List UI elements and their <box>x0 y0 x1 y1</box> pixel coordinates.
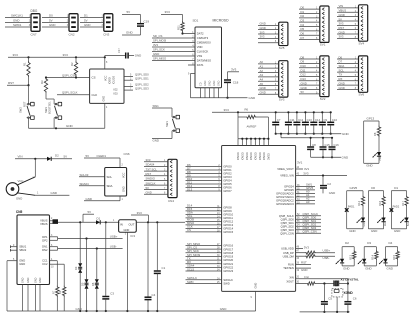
svg-text:IO3: IO3 <box>114 92 119 95</box>
svg-text:GND: GND <box>260 91 266 95</box>
svg-text:USB_DP: USB_DP <box>283 251 294 255</box>
svg-text:SWDIO: SWDIO <box>146 177 156 181</box>
svg-text:GND: GND <box>371 229 377 233</box>
ground rail of VREG caps <box>297 156 349 165</box>
svg-text:GPIO12: GPIO12 <box>223 220 233 224</box>
pushbutton SW2 RST <box>19 85 35 128</box>
wire QSPI_CSN to flash CS <box>45 73 90 78</box>
connector CN7 header <box>31 9 41 36</box>
LED circuit TX D2 <box>336 241 356 271</box>
svg-text:3V3: 3V3 <box>146 158 151 162</box>
svg-text:GND: GND <box>349 229 355 233</box>
svg-text:GP25: GP25 <box>350 186 358 190</box>
svg-text:GND: GND <box>342 156 350 160</box>
svg-text:SWD1: SWD1 <box>13 23 22 27</box>
svg-text:3V3: 3V3 <box>303 172 309 176</box>
svg-text:C19: C19 <box>144 20 150 24</box>
svg-text:CS: CS <box>92 76 96 80</box>
svg-text:R17: R17 <box>401 200 405 205</box>
svg-text:5V: 5V <box>49 19 53 23</box>
svg-text:QSPI_CSN: QSPI_CSN <box>280 231 294 235</box>
svg-text:RST: RST <box>146 172 152 176</box>
wire RUN RST <box>296 261 311 265</box>
svg-text:GND: GND <box>13 19 19 23</box>
svg-text:GND: GND <box>339 86 345 90</box>
LED circuit D7 GP13 <box>364 116 383 167</box>
svg-text:GND: GND <box>84 23 90 27</box>
svg-text:GND: GND <box>16 197 22 201</box>
svg-text:IO2: IO2 <box>114 88 119 91</box>
wire QSPI_SCLK to flash CLK <box>57 91 90 95</box>
svg-text:BOOTSEL: BOOTSEL <box>48 101 52 114</box>
connector CN3 header <box>103 14 113 37</box>
LED circuit D4 D1 <box>390 186 410 233</box>
svg-text:GND: GND <box>343 267 349 271</box>
power rail 3V3 top-left <box>8 53 105 58</box>
svg-text:GND: GND <box>76 307 82 311</box>
wires QSPI bus of U1 <box>296 212 321 234</box>
connector CN6 OLED <box>105 168 127 197</box>
svg-text:GND: GND <box>153 139 159 143</box>
svg-text:USB_DM: USB_DM <box>283 254 295 258</box>
svg-text:QSPI_CSN: QSPI_CSN <box>303 230 317 234</box>
svg-text:5V: 5V <box>88 210 92 214</box>
svg-text:GND: GND <box>209 80 212 86</box>
wires GPIO0-7 of U1 <box>186 163 222 192</box>
svg-text:3V3: 3V3 <box>153 43 158 47</box>
svg-text:CN3: CN3 <box>103 33 109 37</box>
USB-C connector CN5 <box>16 210 50 284</box>
svg-text:GPIO5: GPIO5 <box>223 182 232 186</box>
svg-text:GPIO1: GPIO1 <box>223 168 232 172</box>
wire QSPI_SD0 <box>124 73 149 77</box>
capacitor C7 <box>272 111 281 135</box>
svg-text:A3: A3 <box>306 200 310 204</box>
resistor R6 AVREF <box>238 108 268 139</box>
svg-text:DAT0/MISO: DAT0/MISO <box>197 59 211 63</box>
svg-text:GND: GND <box>39 277 42 283</box>
svg-text:5V: 5V <box>127 10 131 14</box>
svg-text:GPIO8: GPIO8 <box>223 206 232 210</box>
svg-text:SCL03: SCL03 <box>80 173 89 177</box>
capacitor C2 <box>320 176 335 195</box>
svg-text:GPIO7: GPIO7 <box>223 189 232 193</box>
capacitor C1 <box>154 222 166 312</box>
svg-text:GND: GND <box>123 186 126 192</box>
svg-text:QSPI_SCLK: QSPI_SCLK <box>62 91 78 95</box>
svg-text:GND: GND <box>66 124 74 128</box>
svg-text:USB-: USB- <box>110 245 117 249</box>
svg-text:USB-: USB- <box>323 256 330 260</box>
svg-text:GPIO21: GPIO21 <box>223 262 233 266</box>
header SV1 <box>299 5 329 46</box>
wires USB DP of CN5 <box>50 235 123 241</box>
svg-text:QSPI_SD2: QSPI_SD2 <box>281 224 295 228</box>
svg-text:SDA04: SDA04 <box>146 163 155 167</box>
svg-text:5V: 5V <box>301 90 305 94</box>
svg-text:CN2: CN2 <box>69 33 75 37</box>
wire VREG_VIN 3V3 <box>296 172 347 177</box>
svg-text:3V3: 3V3 <box>339 35 344 39</box>
svg-text:PWR: PWR <box>379 155 382 161</box>
svg-text:GND: GND <box>366 164 372 168</box>
svg-text:USB+: USB+ <box>323 249 331 253</box>
capacitor C14 <box>310 111 320 135</box>
ground GND of C19 <box>122 31 141 35</box>
svg-text:CN5: CN5 <box>16 210 23 214</box>
flash memory U2 <box>90 69 124 103</box>
wire USB_VDD 3V3 <box>296 245 310 249</box>
wire RST <box>7 81 30 86</box>
svg-text:3V3: 3V3 <box>224 108 230 112</box>
svg-text:CN7: CN7 <box>31 33 37 37</box>
svg-text:R12: R12 <box>357 200 361 205</box>
svg-text:RST: RST <box>8 81 14 85</box>
svg-text:GND: GND <box>22 277 25 283</box>
svg-text:3V1: 3V1 <box>304 167 310 171</box>
svg-text:IOVDD: IOVDD <box>246 152 249 160</box>
wire QSPI_SD2 <box>124 83 149 87</box>
svg-text:RED: RED <box>384 221 387 226</box>
svg-text:GND: GND <box>213 80 216 86</box>
svg-text:C18: C18 <box>233 81 239 85</box>
svg-text:VREG_VOUT: VREG_VOUT <box>277 167 294 171</box>
capacitor C16 <box>329 137 340 159</box>
svg-text:QSPI_SD0: QSPI_SD0 <box>281 217 295 221</box>
wire SD1 pin 2 SD_CS <box>152 34 195 38</box>
svg-text:R2: R2 <box>70 62 74 66</box>
power rail 3V3 above U1 <box>212 108 331 113</box>
svg-text:GND: GND <box>135 54 141 58</box>
microSD socket SD1 <box>193 19 230 88</box>
svg-text:SV1: SV1 <box>320 43 326 47</box>
svg-text:5V: 5V <box>146 186 150 190</box>
svg-text:D1: D1 <box>97 216 101 220</box>
wire XIN <box>296 275 349 301</box>
wire SD1 pin 6 GND <box>152 52 195 56</box>
barrel jack X1 <box>6 159 39 201</box>
svg-text:OLED1: OLED1 <box>97 154 107 158</box>
svg-text:IOVDD: IOVDD <box>250 152 253 160</box>
svg-text:GND: GND <box>329 191 335 195</box>
svg-text:GP13: GP13 <box>367 116 375 120</box>
svg-text:TESTEN: TESTEN <box>283 266 294 270</box>
wire VIN <box>15 155 47 160</box>
svg-text:GND: GND <box>387 267 393 271</box>
svg-text:C10: C10 <box>332 118 338 122</box>
svg-text:QSPI_CSN: QSPI_CSN <box>62 73 76 77</box>
svg-text:SV3: SV3 <box>279 97 285 101</box>
svg-text:MICROSD: MICROSD <box>213 19 230 23</box>
svg-text:IC3: IC3 <box>131 234 136 238</box>
svg-text:GPIO10: GPIO10 <box>223 213 233 217</box>
svg-text:SV6: SV6 <box>359 93 365 97</box>
wire SCL03 <box>79 173 105 177</box>
svg-text:SW2: SW2 <box>19 107 23 113</box>
svg-text:SWCLK1: SWCLK1 <box>11 14 23 18</box>
svg-text:D0: D0 <box>371 186 375 190</box>
svg-text:C6: C6 <box>353 296 357 300</box>
wires ADC/GPIO24-29 of U1 <box>296 183 315 205</box>
wire SWCLK to CN7 pin 1 <box>5 14 31 18</box>
microcontroller U1 <box>222 146 296 292</box>
wire SD1 pin 8 DAT1 <box>188 63 195 65</box>
capacitor C5 <box>321 284 332 314</box>
node 3V3 of regulator <box>131 211 148 222</box>
svg-text:CS: CS <box>187 228 191 232</box>
svg-text:VCC: VCC <box>105 76 108 81</box>
svg-text:D2: D2 <box>55 153 59 157</box>
ground pin left of CN5 <box>7 259 17 311</box>
svg-text:GND: GND <box>365 267 371 271</box>
resistor R3 <box>40 78 54 100</box>
svg-text:GPIO6: GPIO6 <box>223 186 232 190</box>
ground pins of SD1 <box>200 80 221 97</box>
wire QSPI_SD1 <box>124 76 149 80</box>
capacitor C3 <box>102 222 114 312</box>
svg-text:GPIO16: GPIO16 <box>223 244 233 248</box>
capacitor C17 <box>105 48 141 59</box>
svg-text:3V3: 3V3 <box>260 35 265 39</box>
ground rail under SD1 <box>191 96 257 100</box>
svg-text:BLU: BLU <box>407 221 410 226</box>
wire SWD to CN7 pin 3 <box>5 23 31 27</box>
svg-text:VCC: VCC <box>18 179 24 183</box>
ground rail of bypass caps <box>276 132 350 136</box>
svg-text:GND: GND <box>146 190 152 194</box>
ground rail under buttons <box>29 124 105 129</box>
svg-text:GPIO17: GPIO17 <box>223 247 233 251</box>
svg-text:SDA04: SDA04 <box>80 182 90 186</box>
svg-text:GRN: GRN <box>363 221 366 227</box>
svg-text:C8: C8 <box>312 143 316 147</box>
svg-text:GND: GND <box>19 259 25 263</box>
svg-text:R3: R3 <box>40 80 44 84</box>
svg-text:C13: C13 <box>307 118 313 122</box>
svg-text:GPIO26/ADC0: GPIO26/ADC0 <box>276 192 294 196</box>
svg-text:DP1: DP1 <box>42 235 48 239</box>
svg-text:D13: D13 <box>187 187 193 191</box>
svg-text:GPIO25: GPIO25 <box>284 188 294 192</box>
svg-text:D2: D2 <box>345 241 349 245</box>
resistor R1 <box>22 57 30 85</box>
LED circuit D3 D0 <box>368 186 386 233</box>
svg-text:VIN: VIN <box>18 155 23 159</box>
svg-text:GND: GND <box>86 197 92 201</box>
svg-text:GPIO2: GPIO2 <box>223 172 232 176</box>
wire flash GND down <box>105 103 108 128</box>
svg-text:X1 CRYSTAL: X1 CRYSTAL <box>341 278 360 282</box>
net 3V1 rail <box>280 133 332 138</box>
svg-text:CLK/SCK: CLK/SCK <box>197 50 209 54</box>
ground pin of U1 <box>251 291 256 311</box>
svg-text:GPIO9: GPIO9 <box>223 209 232 213</box>
node 3V3 above R11 <box>161 10 183 14</box>
svg-text:SPI_MOSI: SPI_MOSI <box>153 39 166 43</box>
svg-text:D6: D6 <box>91 282 95 286</box>
svg-text:GPIO19: GPIO19 <box>223 255 233 259</box>
svg-text:GPIO20: GPIO20 <box>223 258 233 262</box>
svg-text:IOVDD: IOVDD <box>259 152 262 160</box>
svg-text:GPIO0: GPIO0 <box>223 165 232 169</box>
svg-text:CMD/MOSI: CMD/MOSI <box>197 41 211 45</box>
wire SWD <box>186 280 222 284</box>
wire SD1 pin 4 3V3 <box>152 43 195 47</box>
svg-text:GND: GND <box>218 80 221 86</box>
wire TESTEN GND <box>296 268 311 272</box>
svg-text:D5: D5 <box>81 282 85 286</box>
svg-text:GND: GND <box>126 31 134 35</box>
svg-text:CC1: CC1 <box>42 259 48 263</box>
svg-text:IN: IN <box>120 222 123 226</box>
wire SWCLK <box>186 276 222 280</box>
connector CN4 <box>168 159 177 203</box>
wire 5V to CN6 <box>84 152 130 168</box>
svg-text:SW1: SW1 <box>153 104 160 108</box>
wire SD1 pin 1 DAT2 <box>183 32 196 34</box>
wire SD1 pin 3 SPI_MOSI <box>152 39 195 43</box>
diode D1 <box>96 216 119 224</box>
svg-text:GND: GND <box>49 23 55 27</box>
svg-text:D3: D3 <box>367 241 371 245</box>
svg-text:GND: GND <box>249 96 257 100</box>
capacitor C12 <box>293 111 303 135</box>
svg-text:C7: C7 <box>277 118 281 122</box>
svg-text:GPIO11: GPIO11 <box>223 216 233 220</box>
svg-text:GPIO18: GPIO18 <box>223 251 233 255</box>
LED circuit D2 GP25 <box>345 186 366 233</box>
svg-text:GND: GND <box>301 268 307 272</box>
pin 8 VCC of flash <box>104 56 108 69</box>
svg-text:GND: GND <box>342 132 350 136</box>
svg-text:GPIO14: GPIO14 <box>223 227 233 231</box>
svg-text:GND: GND <box>51 191 57 195</box>
ground wire of jack <box>35 191 69 195</box>
capacitor C18 <box>224 68 239 98</box>
wire SD1 pin 5 SPI_SCK <box>152 48 195 52</box>
wire SD1 pin 7 SPI_MISO <box>152 57 195 61</box>
LED circuit PWR D4 <box>379 241 399 271</box>
svg-text:CLK: CLK <box>92 93 98 97</box>
svg-text:GND: GND <box>35 277 38 283</box>
svg-text:R15: R15 <box>392 254 396 259</box>
svg-text:SPI_MISO: SPI_MISO <box>153 57 167 61</box>
ground pins bottom of CN5 <box>23 285 41 312</box>
svg-text:VCC: VCC <box>123 173 126 178</box>
svg-text:SWCLK: SWCLK <box>146 181 156 185</box>
connector CN2 header <box>69 14 79 37</box>
LED circuit RX D3 <box>358 241 378 271</box>
resistor R4 USB_DP <box>296 249 335 255</box>
svg-text:IOVDD: IOVDD <box>241 152 244 160</box>
diode D2 input <box>47 153 72 161</box>
pushbutton SW1 <box>152 104 180 143</box>
ground rail of crystal <box>300 311 350 313</box>
wires GPIO8-15 of U1 <box>186 204 222 233</box>
svg-text:R1: R1 <box>22 62 26 66</box>
capacitor C4 <box>145 222 156 312</box>
svg-text:IO1/DO: IO1/DO <box>113 76 116 84</box>
svg-text:GND: GND <box>220 307 228 311</box>
svg-text:D4: D4 <box>389 241 393 245</box>
header SV5 <box>258 22 288 50</box>
svg-text:R6: R6 <box>245 108 249 112</box>
capacitor C15 <box>320 137 331 159</box>
svg-text:C5: C5 <box>328 296 332 300</box>
svg-text:D3: D3 <box>74 266 78 270</box>
svg-text:C12: C12 <box>298 118 304 122</box>
svg-text:GPIO4: GPIO4 <box>223 179 232 183</box>
svg-text:XOUT: XOUT <box>286 279 294 283</box>
svg-text:IO0/DI: IO0/DI <box>109 77 112 84</box>
svg-text:DN1: DN1 <box>42 245 48 249</box>
svg-text:VSS: VSS <box>197 54 203 58</box>
svg-text:D1: D1 <box>84 14 88 18</box>
svg-text:PAD2: PAD2 <box>393 204 400 208</box>
svg-text:DBG: DBG <box>31 9 38 13</box>
resistor R9 <box>58 286 66 312</box>
svg-text:USB_VDD: USB_VDD <box>281 247 294 251</box>
svg-text:3V3: 3V3 <box>63 53 69 57</box>
svg-text:GND: GND <box>394 229 400 233</box>
svg-text:USB+: USB+ <box>110 235 118 239</box>
svg-text:QSPI_SD1: QSPI_SD1 <box>135 76 149 80</box>
wire VBUS of CN5 <box>50 218 97 224</box>
ground rail bottom <box>7 307 256 311</box>
svg-text:XGND: XGND <box>344 291 354 295</box>
node XGND <box>332 288 354 312</box>
svg-text:Crst: Crst <box>304 275 309 279</box>
svg-text:SBU2: SBU2 <box>19 248 27 252</box>
ESD diode D5 <box>81 239 89 313</box>
svg-text:C17: C17 <box>117 48 121 53</box>
capacitor C11 <box>285 111 295 135</box>
svg-text:R9: R9 <box>58 290 62 294</box>
wire VREG_VOUT 3V1 <box>296 167 310 171</box>
svg-text:C1: C1 <box>162 266 166 270</box>
svg-text:QSPI_SD1: QSPI_SD1 <box>281 221 295 225</box>
svg-text:C16: C16 <box>334 143 340 147</box>
header SV3 <box>258 60 288 101</box>
wires of CN4 <box>144 158 168 195</box>
svg-text:3V1: 3V1 <box>297 160 303 164</box>
capacitor C6 <box>344 296 356 313</box>
svg-text:D7: D7 <box>301 36 305 40</box>
svg-text:QSPI_SCLK: QSPI_SCLK <box>279 214 294 218</box>
pin 9 CD of SD1 <box>188 74 195 98</box>
svg-text:SD1: SD1 <box>193 19 199 23</box>
header SV6 <box>337 55 368 96</box>
svg-text:CN4: CN4 <box>168 199 174 203</box>
svg-text:DVDD: DVDD <box>268 153 271 160</box>
svg-text:RST: RST <box>301 261 307 265</box>
ground pin of IC3 <box>126 232 128 312</box>
svg-text:GPIO27/ADC1: GPIO27/ADC1 <box>276 195 294 199</box>
svg-text:GPIO23: GPIO23 <box>223 269 233 273</box>
svg-text:VDD: VDD <box>197 45 203 49</box>
svg-text:RST: RST <box>22 101 26 107</box>
resistor R5 USB_DM <box>296 255 335 261</box>
wires SBU pins of CN5 <box>11 245 18 252</box>
svg-text:GPIO3: GPIO3 <box>223 175 232 179</box>
svg-text:SPI_SCK: SPI_SCK <box>153 48 165 52</box>
svg-text:SDA: SDA <box>107 184 113 188</box>
capacitor C8 <box>307 137 316 158</box>
svg-text:R16: R16 <box>378 200 382 205</box>
svg-text:R8: R8 <box>373 132 377 136</box>
svg-text:IOVDD: IOVDD <box>254 152 257 160</box>
svg-text:XIN: XIN <box>289 276 294 280</box>
